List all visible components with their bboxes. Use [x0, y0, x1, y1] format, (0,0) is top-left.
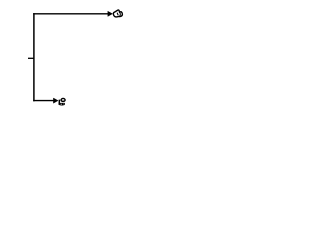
wire: top branch: [33, 13, 108, 15]
arrowhead: top branch: [108, 11, 113, 16]
wire: vertical bus: [33, 13, 35, 101]
wire: root stub (left, middle): [28, 57, 34, 59]
wire: bottom branch: [33, 100, 54, 102]
arrowhead: bottom branch: [53, 98, 58, 103]
node icon: bottom scribble symbol: [59, 98, 65, 105]
node icon: top scribble symbol: [113, 10, 122, 17]
